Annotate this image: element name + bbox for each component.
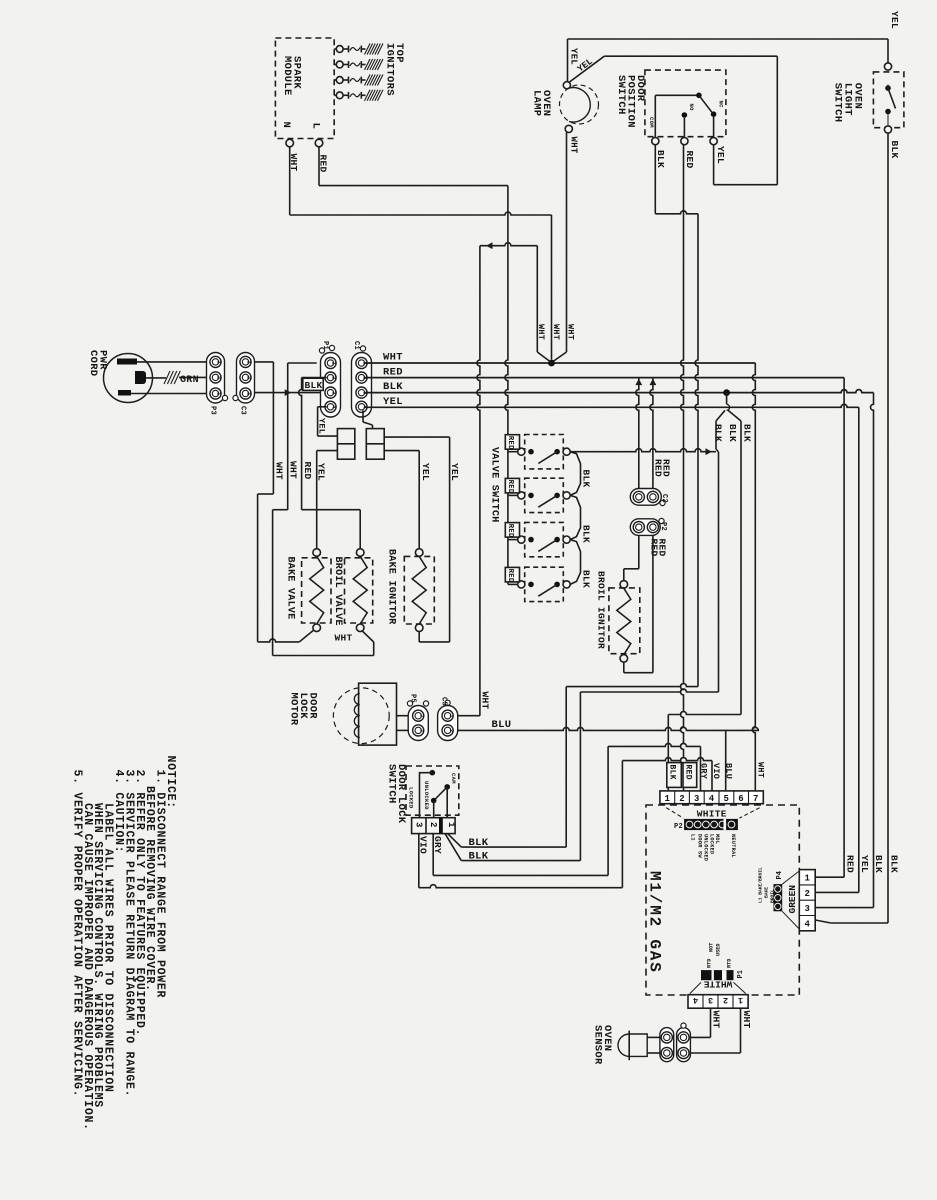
- svg-text:P1: P1: [737, 970, 745, 978]
- svg-text:P2: P2: [659, 522, 667, 531]
- wire YEL from NC to lamp net: [713, 145, 715, 185]
- wire GRY term2 to control pin 3: [432, 834, 434, 876]
- svg-text:GRY: GRY: [699, 763, 709, 780]
- contact NO: [682, 112, 688, 118]
- svg-text:LOCKED: LOCKED: [408, 787, 415, 809]
- contact pivot: [696, 93, 702, 99]
- contact locked: [431, 798, 437, 804]
- svg-text:C5: C5: [440, 697, 448, 706]
- bake valve terminal bottom: [313, 624, 321, 632]
- contact: [885, 85, 891, 91]
- oven lamp terminal bottom: [565, 125, 572, 132]
- connector P1 (harness): [321, 353, 341, 418]
- svg-text:L1 BAKE/BROIL: L1 BAKE/BROIL: [758, 867, 764, 903]
- svg-text:UNLOCKED: UNLOCKED: [703, 834, 709, 861]
- svg-text:WHT: WHT: [288, 461, 299, 479]
- connector P5: [408, 706, 428, 741]
- svg-text:P1: P1: [321, 341, 329, 350]
- svg-text:DOOR SW: DOOR SW: [696, 834, 702, 858]
- wire RED from NO down to control pin 2: [681, 145, 684, 791]
- wires green strip to right verticals: [815, 876, 844, 878]
- svg-text:BROIL: BROIL: [770, 889, 776, 903]
- ground hatching: [365, 59, 371, 70]
- top ignitor 3: [334, 79, 336, 81]
- bake ignitor terminal bottom: [415, 624, 423, 632]
- svg-text:WHT: WHT: [536, 324, 546, 340]
- door position switch internals: [654, 95, 656, 137]
- svg-text:4: 4: [709, 794, 715, 804]
- svg-text:RTD: RTD: [707, 959, 713, 968]
- svg-text:BLK: BLK: [581, 570, 592, 588]
- svg-text:YEL: YEL: [316, 463, 327, 481]
- sensor connector mate: [677, 1028, 691, 1062]
- svg-text:BLK: BLK: [581, 470, 592, 488]
- svg-text:CORD: CORD: [87, 350, 99, 376]
- svg-text:VIO: VIO: [417, 836, 428, 854]
- broil valve terminal top: [356, 549, 364, 557]
- svg-text:WHITE: WHITE: [703, 979, 732, 990]
- svg-text:2: 2: [448, 729, 455, 732]
- svg-text:4: 4: [693, 995, 698, 1005]
- wire YEL lamp diagonal to door position switch net: [570, 56, 605, 82]
- connector P2 (board): [684, 819, 738, 830]
- svg-text:SWITCH: SWITCH: [832, 83, 844, 123]
- svg-text:1: 1: [664, 794, 670, 804]
- connector P3: [207, 353, 225, 404]
- svg-text:BROIL IGNITOR: BROIL IGNITOR: [596, 571, 607, 649]
- wire from plug to P3 pin 3: [137, 361, 207, 363]
- wire RED from P1 pin2 to bake/broil valves: [302, 377, 327, 379]
- motor coil: [354, 694, 360, 738]
- svg-text:RED: RED: [683, 765, 692, 780]
- svg-text:LAMP: LAMP: [531, 90, 543, 116]
- svg-text:BLK: BLK: [469, 837, 489, 849]
- broil valve coil: [353, 556, 367, 624]
- svg-text:L: L: [310, 123, 322, 130]
- contact: [885, 109, 891, 115]
- svg-text:WHITE: WHITE: [697, 809, 727, 820]
- svg-text:M1/M2 GAS: M1/M2 GAS: [646, 871, 664, 974]
- valve switch section 2: [525, 478, 564, 512]
- svg-text:2: 2: [246, 376, 253, 379]
- svg-text:USED: USED: [716, 944, 722, 956]
- broil valve (dashed box): [345, 558, 373, 623]
- fuse box 2: [366, 429, 384, 460]
- svg-text:2: 2: [804, 889, 810, 899]
- top terminal strip 1-7: [660, 791, 763, 804]
- svg-text:5. VERIFY PROPER OPERATION AFT: 5. VERIFY PROPER OPERATION AFTER SERVICI…: [70, 770, 83, 1098]
- top ignitor 4: [334, 94, 336, 96]
- svg-text:CAM: CAM: [450, 773, 457, 784]
- svg-text:WHT: WHT: [741, 1011, 752, 1029]
- svg-text:UNLOCKED: UNLOCKED: [423, 781, 430, 810]
- wire P2 to broil ignitor: [638, 535, 640, 568]
- svg-text:WHT: WHT: [569, 137, 579, 154]
- wire BLK valve switch output to BLK node: [570, 449, 716, 452]
- svg-text:SWITCH: SWITCH: [615, 75, 627, 115]
- wire YEL bus to green strip pin 2: [858, 407, 860, 892]
- power cord plug: [104, 354, 153, 403]
- svg-text:2: 2: [331, 376, 338, 379]
- svg-text:1: 1: [738, 995, 743, 1005]
- right terminal strip (green) 1-4: [799, 870, 815, 931]
- svg-text:2: 2: [216, 376, 223, 379]
- svg-text:P3: P3: [209, 406, 217, 415]
- svg-text:BLK: BLK: [383, 381, 403, 393]
- bake ignitor terminal top: [415, 549, 423, 557]
- svg-text:C1: C1: [352, 341, 360, 350]
- svg-text:BROIL VALVE: BROIL VALVE: [332, 557, 343, 626]
- connector C2: [630, 489, 661, 506]
- svg-text:P4: P4: [776, 871, 784, 879]
- wire RED bus to green strip pin 1: [843, 378, 845, 878]
- top ignitor 2: [334, 64, 336, 66]
- ground hatching: [365, 90, 371, 101]
- wire broil valve top feed: [359, 510, 361, 549]
- wire YEL fuse box2 top to bake ignitor return: [384, 436, 449, 438]
- svg-text:VIO: VIO: [711, 763, 721, 779]
- svg-text:5: 5: [724, 794, 730, 804]
- svg-text:SENSOR: SENSOR: [592, 1025, 604, 1065]
- svg-text:BLU: BLU: [492, 719, 512, 731]
- oven lamp terminal top: [563, 82, 570, 89]
- svg-text:RED: RED: [383, 366, 403, 378]
- connector C5: [438, 706, 458, 741]
- svg-text:P2: P2: [674, 823, 683, 831]
- svg-text:BLK: BLK: [581, 525, 592, 543]
- door lock motor body: [359, 683, 397, 745]
- svg-text:YEL: YEL: [889, 11, 900, 29]
- svg-text:RED: RED: [657, 539, 668, 557]
- spark module (dashed box): [275, 38, 334, 139]
- svg-text:P5: P5: [409, 694, 417, 703]
- bake ignitor element: [412, 556, 426, 624]
- svg-text:BLK: BLK: [889, 141, 900, 159]
- svg-text:WHT: WHT: [756, 762, 766, 778]
- svg-text:BLK: BLK: [888, 855, 899, 873]
- wire BLK to control board pin 1: [740, 421, 742, 715]
- svg-text:WHT: WHT: [383, 352, 403, 364]
- wire WHT to C5 pin1: [458, 715, 480, 717]
- connector C1 (harness): [352, 353, 372, 418]
- fuse box 1: [337, 429, 354, 460]
- boxed label BLK: [303, 378, 323, 390]
- wire RED from spark module L: [318, 147, 320, 186]
- svg-text:WHT: WHT: [565, 324, 575, 340]
- bus wire YEL: [365, 404, 859, 407]
- wire WHT vertical to door lock motor: [477, 246, 480, 716]
- wire BLK term1 (B): [445, 834, 461, 861]
- svg-text:C2: C2: [660, 494, 668, 503]
- wire BLK from COM: [654, 145, 656, 214]
- wire BLK node split: [726, 393, 728, 405]
- svg-text:BLK: BLK: [667, 765, 676, 780]
- switch blade: [888, 88, 896, 108]
- wire BLK to door lock switch (via left): [715, 421, 717, 449]
- ground hatching: [365, 44, 371, 55]
- svg-text:7: 7: [753, 794, 759, 804]
- svg-text:RED: RED: [845, 855, 856, 873]
- ground symbol: [164, 371, 170, 384]
- bottom terminal strip 4-1: [688, 995, 748, 1009]
- svg-text:3: 3: [414, 822, 424, 828]
- svg-text:IGNITORS: IGNITORS: [384, 43, 396, 96]
- svg-text:BLU: BLU: [724, 763, 734, 779]
- oven light switch (dashed box): [873, 72, 904, 128]
- wire WHT from spark module N: [289, 147, 291, 215]
- svg-text:YEL: YEL: [569, 48, 579, 65]
- door position switch (dashed box): [645, 70, 726, 137]
- wire WHT vertical from jog: [536, 246, 538, 352]
- svg-text:2: 2: [679, 794, 685, 804]
- bake valve coil: [310, 556, 324, 624]
- svg-text:N: N: [280, 122, 292, 129]
- oven lamp: [560, 85, 599, 124]
- svg-text:2: 2: [723, 995, 728, 1005]
- connector P2: [630, 519, 660, 536]
- svg-text:BAKE VALVE: BAKE VALVE: [285, 557, 296, 620]
- switch blade: [435, 787, 447, 800]
- wire from C1 pin4 to fuse box 2: [362, 411, 364, 423]
- contact CAM: [430, 770, 436, 776]
- svg-text:L1: L1: [690, 834, 696, 841]
- boxed label RED pin2: [683, 763, 697, 788]
- junction WHT node: [548, 360, 555, 367]
- wire broil ignitor return loop: [623, 662, 625, 673]
- svg-text:3: 3: [694, 794, 700, 804]
- svg-text:YEL: YEL: [383, 396, 403, 408]
- svg-text:BAKE: BAKE: [764, 887, 770, 898]
- wire BLK bus to green strip pin 3: [871, 393, 874, 908]
- connector P2 trapezoid: [666, 808, 683, 818]
- valve switch section 4: [525, 567, 564, 601]
- svg-text:RED: RED: [506, 480, 514, 494]
- svg-text:2: 2: [418, 729, 425, 732]
- wire BLK valve switch outputs chain: [570, 452, 580, 496]
- svg-text:BLK: BLK: [873, 855, 884, 873]
- bake valve terminal top: [313, 549, 321, 557]
- wire WHT from P1 pin1 down to broil valve: [288, 362, 317, 364]
- svg-text:RTD: RTD: [727, 959, 733, 968]
- svg-text:1: 1: [804, 874, 810, 884]
- bake ignitor (dashed box): [404, 556, 434, 624]
- svg-text:BAKE IGNITOR: BAKE IGNITOR: [386, 549, 397, 625]
- svg-text:3: 3: [804, 904, 810, 914]
- svg-text:MODULE: MODULE: [281, 56, 293, 96]
- wire BLK from C3 pin1 to P1 pin3 (BLK bus): [255, 392, 328, 394]
- wires motor to P5: [397, 715, 409, 717]
- svg-text:NO: NO: [688, 104, 695, 112]
- terminal COM: [652, 138, 659, 145]
- svg-text:2: 2: [428, 822, 438, 828]
- wire from plug to P3 pin 1: [130, 393, 207, 395]
- wire YEL fuse box2 bottom to bake ignitor: [384, 450, 419, 452]
- svg-text:RED: RED: [506, 524, 514, 538]
- door lock switch terminal strip: [412, 818, 456, 834]
- junction BLK node: [723, 389, 730, 396]
- connector C3: [237, 353, 255, 404]
- svg-text:BLK: BLK: [655, 150, 666, 168]
- top ignitor 1: [334, 48, 336, 50]
- bus wire RED: [365, 377, 844, 379]
- wire BLU from C5 pin2 to control pin 5: [458, 727, 759, 730]
- svg-text:C3: C3: [239, 406, 247, 415]
- oven sensor bulb: [629, 1034, 647, 1056]
- svg-text:YEL: YEL: [715, 146, 726, 164]
- contact NC: [711, 111, 717, 117]
- svg-text:WHT: WHT: [551, 324, 561, 340]
- svg-text:MDL: MDL: [714, 834, 720, 844]
- M1/M2 GAS control (dashed box): [646, 805, 799, 995]
- wire BLK from oven light switch down right side: [887, 133, 889, 923]
- switch blade: [699, 95, 712, 112]
- svg-text:MOTOR: MOTOR: [288, 693, 300, 726]
- wire YEL fuse box1 bottom to bake valve: [317, 450, 338, 452]
- wire WHT from C3 pin3 down to bake valve: [255, 361, 274, 363]
- contact unlocked: [444, 784, 450, 790]
- spark module terminal N: [286, 139, 294, 147]
- spark module terminal L: [315, 139, 323, 147]
- svg-text:RED: RED: [684, 151, 695, 169]
- svg-text:4: 4: [804, 919, 810, 929]
- svg-text:NOT: NOT: [709, 943, 715, 952]
- valve switch section 1: [525, 435, 564, 469]
- broil valve terminal bottom: [356, 624, 364, 632]
- svg-text:GREEN: GREEN: [787, 885, 798, 914]
- wire RED from RED bus to C2: [636, 378, 639, 491]
- door lock switch internal wires: [420, 773, 433, 818]
- sensor connector: [660, 1028, 674, 1062]
- svg-text:YEL: YEL: [449, 463, 460, 481]
- svg-text:WHT: WHT: [480, 692, 491, 710]
- ground wire GRN: [146, 377, 166, 379]
- svg-text:LOCKED: LOCKED: [708, 834, 714, 854]
- bus wire WHT: [365, 362, 755, 364]
- wire BLK term1 (A): [448, 834, 462, 848]
- bake valve (dashed box): [302, 558, 331, 623]
- ground hatching: [365, 75, 371, 86]
- svg-text:1: 1: [446, 822, 456, 828]
- svg-text:WHT: WHT: [335, 633, 353, 644]
- svg-text:WHT: WHT: [711, 1011, 722, 1029]
- svg-text:BLK: BLK: [742, 424, 753, 442]
- wires sensor bulb to connector: [647, 1036, 660, 1038]
- connector P1 (board bottom): [701, 970, 734, 980]
- svg-text:YEL: YEL: [420, 463, 431, 481]
- wire BLK COM to door lock switch: [566, 684, 698, 687]
- connector P4 (board): [774, 884, 783, 911]
- svg-text:RED: RED: [661, 459, 672, 477]
- wire VIO term3 to control pin 4: [418, 834, 420, 888]
- svg-text:BLK: BLK: [469, 851, 489, 863]
- bus wire BLK: [365, 390, 874, 393]
- svg-text:VALVE SWITCH: VALVE SWITCH: [489, 447, 500, 523]
- wires control board to oven sensor: [710, 1008, 712, 1037]
- terminal NC: [710, 138, 717, 145]
- terminal NO: [681, 138, 688, 145]
- svg-text:3: 3: [708, 995, 713, 1005]
- svg-text:YEL: YEL: [859, 855, 870, 873]
- wire WHT from lamp bottom to junction: [566, 133, 568, 353]
- svg-text:6: 6: [738, 794, 744, 804]
- oven light switch terminal bottom: [884, 126, 891, 133]
- svg-text:RED: RED: [302, 462, 313, 480]
- svg-text:BLK: BLK: [305, 380, 323, 391]
- oven light switch terminal top: [884, 63, 891, 70]
- svg-text:GRY: GRY: [432, 836, 443, 854]
- wire YEL lamp to oven light switch (top run): [567, 39, 569, 82]
- svg-text:RED: RED: [506, 569, 514, 583]
- wire YEL from P1 pin4 to fuse box 1: [318, 406, 327, 408]
- svg-text:YEL: YEL: [317, 418, 327, 434]
- svg-text:NEUTRAL: NEUTRAL: [730, 834, 736, 858]
- wire RED vertical feed to valve switch: [505, 186, 508, 585]
- svg-text:BLK: BLK: [727, 424, 738, 442]
- broil ignitor terminal bottom: [620, 655, 628, 663]
- door lock motor: [333, 688, 389, 744]
- wire WHT bus to control pin 7: [752, 363, 755, 791]
- svg-text:BLK: BLK: [713, 424, 724, 442]
- boxed label BLK pin1: [667, 763, 682, 788]
- svg-text:GRN: GRN: [180, 375, 199, 386]
- svg-text:WHT: WHT: [274, 462, 285, 480]
- broil ignitor (dashed box): [609, 588, 640, 654]
- door lock switch (dashed box): [406, 766, 459, 815]
- svg-text:SWITCH: SWITCH: [386, 764, 398, 804]
- broil ignitor terminal top: [620, 581, 628, 589]
- svg-text:RED: RED: [506, 436, 514, 450]
- svg-text:NC: NC: [718, 101, 725, 109]
- svg-text:COM: COM: [648, 117, 655, 128]
- broil ignitor element: [617, 588, 631, 655]
- valve switch section 3: [525, 522, 564, 556]
